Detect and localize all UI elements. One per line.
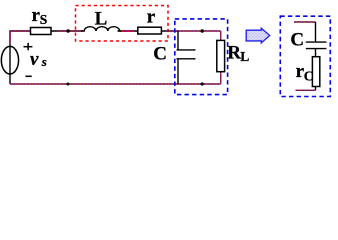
svg-text:v: v [30, 49, 39, 70]
capacitor C plates [177, 49, 196, 51]
capacitor C (right) bottom lead [315, 49, 317, 57]
wire: top-left from source to r_S [10, 31, 31, 84]
capacitor C (left): top lead [177, 31, 179, 50]
wire: bottom stub in right box [296, 89, 316, 91]
wire: top rail cap to R_L [178, 30, 221, 32]
wire: top stub in right box [294, 21, 316, 23]
svg-text:C: C [153, 44, 167, 65]
junction dot bottom-right [201, 82, 204, 85]
resistor r_C bottom lead [315, 87, 317, 91]
wire: L to r with red dashed overlay [118, 30, 138, 32]
resistor r_C [312, 57, 319, 87]
wire: bottom rail [10, 83, 221, 85]
minus sign [26, 75, 32, 77]
junction dot top-left [67, 29, 70, 32]
junction dot top-right [201, 29, 204, 32]
svg-text:C: C [290, 30, 304, 51]
svg-text:L: L [95, 9, 108, 30]
wire: r to cap junction [161, 30, 178, 32]
inductor L [81, 27, 121, 31]
resistor R_L [217, 40, 225, 71]
resistor R_L leads [220, 31, 222, 84]
blue dashed box (C parallel R_L) [175, 19, 228, 95]
svg-text:S: S [40, 12, 48, 27]
resistor r [138, 27, 162, 34]
red dashed box (L and r) [76, 6, 169, 42]
blue dashed box (C with r_C) [280, 16, 330, 96]
plus sign [24, 43, 33, 51]
svg-text:s: s [41, 54, 47, 69]
junction dot bottom-left [66, 83, 69, 86]
svg-text:C: C [304, 68, 314, 83]
svg-text:L: L [240, 49, 249, 64]
capacitor C (right) plates [306, 41, 327, 43]
svg-text:r: r [147, 7, 156, 28]
voltage source v_s [1, 46, 18, 74]
capacitor C bottom lead [177, 59, 179, 84]
capacitor C (right): top lead [315, 22, 317, 42]
wire: r_S to red box edge [51, 30, 83, 32]
svg-text:R: R [227, 42, 241, 63]
resistor r_S [31, 28, 52, 35]
